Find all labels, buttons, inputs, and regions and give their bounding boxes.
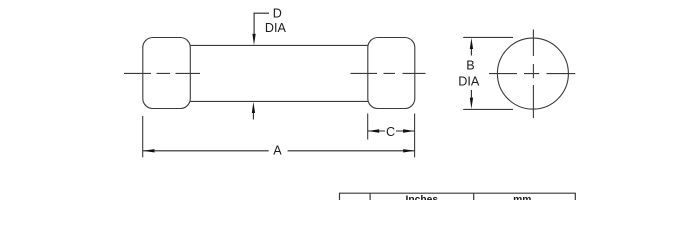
- svg-text:B: B: [466, 59, 474, 73]
- B dimension top extension line: [463, 36, 513, 38]
- D DIA leader line: [254, 13, 269, 34]
- A dimension right extension line: [414, 114, 416, 158]
- table vertical divider 1: [369, 193, 371, 200]
- circle vertical centerline: [532, 30, 534, 119]
- B dimension bottom arrow: [470, 98, 473, 109]
- A dimension left arrow: [143, 149, 155, 152]
- svg-text:mm: mm: [513, 195, 531, 200]
- svg-text:Inches: Inches: [405, 195, 438, 200]
- C dimension left arrow: [368, 129, 380, 132]
- table left border: [339, 193, 341, 200]
- B dimension bottom extension line: [463, 108, 513, 110]
- C dimension right arrow: [403, 129, 415, 132]
- D dimension bottom arrow (up, at body bottom): [252, 102, 255, 120]
- svg-text:A: A: [273, 144, 282, 158]
- label DIA (top): [265, 21, 287, 35]
- label DIA (circle view): [458, 74, 480, 88]
- B dimension line: [470, 49, 472, 98]
- table top border: [339, 192, 576, 194]
- B dimension top arrow: [470, 38, 473, 49]
- label D: [273, 7, 282, 21]
- svg-text:C: C: [386, 125, 395, 139]
- svg-text:D: D: [273, 7, 282, 21]
- body bottom line: [190, 100, 369, 102]
- D DIA leader arrow (down, at body top): [252, 34, 255, 46]
- centerline left cap: [124, 72, 200, 74]
- left end cap: [143, 38, 191, 109]
- right end cap: [368, 38, 415, 109]
- svg-text:DIA: DIA: [458, 74, 480, 88]
- centerline right cap: [351, 72, 426, 74]
- table vertical divider 2: [473, 193, 475, 200]
- label B: [466, 59, 474, 73]
- C dimension left extension line: [367, 114, 369, 140]
- svg-text:DIA: DIA: [265, 21, 287, 35]
- end view circle: [497, 38, 568, 109]
- body top line: [190, 44, 369, 46]
- table right border: [574, 193, 576, 200]
- label C: [386, 125, 395, 139]
- label A: [273, 144, 282, 158]
- A dimension right arrow: [403, 149, 415, 152]
- table header Inches: [405, 195, 438, 206]
- circle horizontal centerline: [489, 73, 575, 75]
- C dimension line: [368, 130, 415, 132]
- A dimension left extension line: [142, 116, 144, 157]
- A dimension line: [143, 150, 415, 152]
- table header mm: [513, 195, 531, 206]
